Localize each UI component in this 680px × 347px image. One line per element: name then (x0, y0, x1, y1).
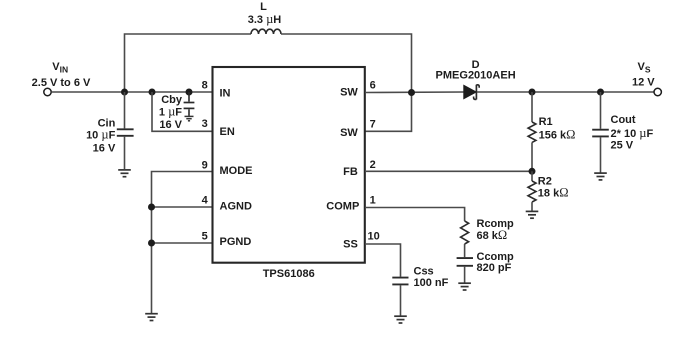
svg-text:7: 7 (370, 119, 376, 131)
svg-text:IN: IN (220, 88, 231, 100)
svg-text:16 V: 16 V (93, 142, 116, 154)
node Cout junction (597, 89, 604, 96)
node FB junction (529, 168, 536, 175)
svg-text:1 µF: 1 µF (159, 104, 182, 118)
ground for Css (394, 316, 407, 323)
svg-text:TPS61086: TPS61086 (263, 268, 315, 280)
node R1 junction (529, 89, 536, 96)
svg-text:SS: SS (343, 239, 358, 251)
wire MODE to ground rail (152, 172, 213, 314)
svg-text:R1: R1 (539, 116, 553, 128)
svg-text:12 V: 12 V (632, 77, 655, 89)
svg-text:10 µF: 10 µF (86, 127, 116, 141)
wire SW7 riser (365, 93, 412, 132)
svg-text:16 V: 16 V (159, 119, 182, 131)
wire SW6 to diode (365, 91, 464, 94)
node EN branch junction (149, 89, 156, 96)
svg-text:PMEG2010AEH: PMEG2010AEH (436, 70, 516, 82)
wire EN from input junction (152, 92, 212, 131)
capacitor Cin 10 uF 16 V (86, 92, 134, 169)
svg-text:9: 9 (202, 159, 208, 171)
svg-text:Ccomp: Ccomp (477, 251, 515, 263)
wire PGND (152, 242, 213, 244)
svg-text:68 kΩ: 68 kΩ (477, 228, 508, 242)
resistor R1 156 kOhm (528, 92, 575, 171)
svg-text:820 pF: 820 pF (477, 262, 512, 274)
inductor L1 3.3 uH (248, 1, 282, 34)
svg-text:3: 3 (202, 118, 208, 130)
svg-text:FB: FB (343, 166, 358, 178)
ground for Cout (594, 173, 607, 180)
ground for Cin (118, 170, 131, 177)
wire diode to VS (477, 91, 654, 93)
node SW junction (408, 89, 415, 96)
node PGND junction (148, 240, 155, 247)
svg-text:2.5 V to 6 V: 2.5 V to 6 V (32, 77, 91, 89)
svg-text:2: 2 (370, 159, 376, 171)
svg-text:PGND: PGND (220, 236, 252, 248)
svg-text:2* 10 µF: 2* 10 µF (611, 126, 654, 140)
svg-text:1: 1 (370, 194, 376, 206)
ground for Cby (185, 116, 194, 120)
svg-text:MODE: MODE (220, 165, 253, 177)
svg-text:COMP: COMP (326, 201, 359, 213)
svg-text:Css: Css (414, 265, 434, 277)
svg-text:10: 10 (368, 230, 380, 242)
wire AGND (152, 206, 213, 208)
svg-text:18 kΩ: 18 kΩ (538, 186, 569, 200)
ground for R2 (526, 211, 539, 218)
svg-text:EN: EN (220, 126, 235, 138)
wire COMP to Rcomp (365, 208, 465, 222)
svg-text:25 V: 25 V (611, 140, 634, 152)
svg-text:3.3 µH: 3.3 µH (248, 12, 282, 26)
wire top loop left vertical (125, 34, 252, 92)
terminal VIN (32, 61, 91, 96)
svg-text:AGND: AGND (220, 200, 252, 212)
node AGND junction (148, 204, 155, 211)
capacitor Ccomp 820 pF (457, 251, 514, 283)
svg-text:156 kΩ: 156 kΩ (539, 128, 576, 142)
capacitor Css 100 nF (392, 265, 448, 315)
capacitor Cby 1 uF 16 V (159, 92, 195, 131)
ground for Ccomp (458, 283, 471, 290)
svg-text:R2: R2 (538, 176, 552, 188)
node Cby junction (186, 89, 193, 96)
wire VIN to pin8 IN (51, 91, 212, 93)
svg-text:4: 4 (202, 194, 209, 206)
op-amp U1 TPS61086 IC box (213, 67, 365, 280)
svg-text:5: 5 (202, 230, 208, 242)
resistor R2 18 kOhm (528, 171, 569, 211)
capacitor Cout 2*10uF 25V (592, 92, 653, 173)
wire top loop right (281, 34, 412, 93)
svg-text:6: 6 (370, 79, 376, 91)
terminal VS (632, 61, 661, 96)
svg-text:SW: SW (340, 127, 358, 139)
wire SS to Css (365, 244, 401, 277)
svg-text:SW: SW (340, 86, 358, 98)
diode D PMEG2010AEH (436, 59, 516, 99)
svg-text:Cout: Cout (611, 114, 636, 126)
svg-text:100 nF: 100 nF (414, 277, 449, 289)
svg-text:8: 8 (202, 79, 208, 91)
wire FB (365, 170, 532, 172)
svg-text:Rcomp: Rcomp (477, 218, 515, 230)
ground for analog/power rail (145, 314, 158, 321)
node input junction (121, 89, 128, 96)
resistor Rcomp 68 kOhm (461, 218, 514, 257)
